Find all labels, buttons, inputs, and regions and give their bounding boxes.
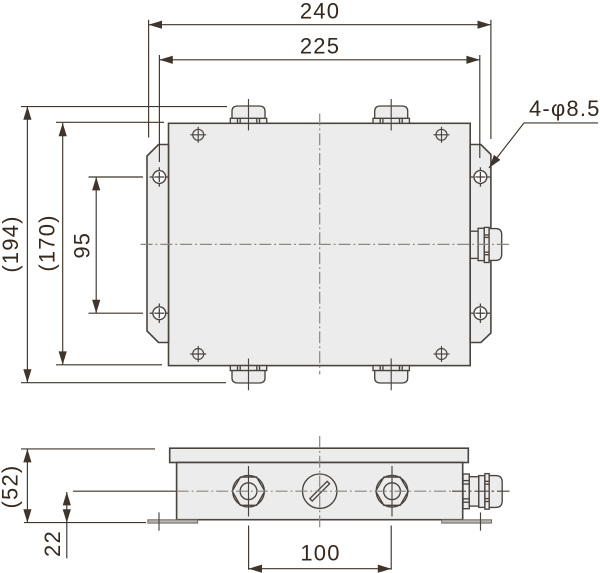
centerline extension left [73, 490, 177, 492]
left mounting flange [147, 145, 169, 343]
bottom cable gland left [230, 366, 266, 383]
top cable gland left [230, 106, 266, 123]
top gland left crosshair [248, 99, 250, 131]
side gland ring C [485, 474, 489, 510]
dimension (170) [35, 122, 164, 364]
dimension (194) [0, 106, 227, 382]
left foot crosshair [158, 512, 160, 530]
side view horizontal centerline [177, 490, 455, 492]
hex fitting right [376, 475, 409, 507]
lid side view [170, 448, 469, 462]
dimension 95 [69, 177, 143, 313]
side gland barrel [469, 477, 479, 506]
svg-text:(194): (194) [0, 215, 23, 272]
svg-text:225: 225 [300, 33, 340, 58]
vertical centerline top view [319, 114, 321, 375]
dimension 225 [159, 33, 479, 162]
side gland cap [489, 476, 502, 508]
svg-text:100: 100 [300, 541, 340, 566]
svg-text:95: 95 [69, 232, 94, 259]
dimension 22 [40, 492, 71, 558]
leader 4-phi8.5 [489, 96, 600, 168]
svg-text:(170): (170) [35, 214, 60, 271]
side gland nut [463, 474, 502, 510]
right side connector nut [478, 228, 484, 260]
corner screw bottom-left [190, 346, 206, 362]
top cable gland right [373, 106, 409, 123]
flange hole bottom-right [471, 304, 490, 323]
right side connector cap [489, 229, 502, 261]
flange hole top-right [471, 167, 490, 186]
side gland crosshair [452, 490, 510, 492]
hex fitting right crosshair [391, 466, 393, 517]
left foot [148, 520, 198, 523]
slotted fitting [303, 474, 337, 508]
top gland right crosshair [390, 99, 392, 131]
corner screw top-left [190, 127, 206, 143]
svg-text:4-φ8.5: 4-φ8.5 [529, 96, 600, 121]
flange hole top-left [150, 167, 169, 186]
right foot [442, 520, 492, 523]
hex fitting left crosshair [248, 466, 250, 517]
dimension (52) [0, 449, 155, 523]
horizontal centerline top view [141, 243, 510, 245]
hex fitting left [232, 475, 265, 507]
body side view [177, 463, 463, 520]
corner screw bottom-right [434, 346, 450, 362]
svg-text:240: 240 [300, 0, 340, 23]
box body top view [169, 123, 471, 365]
corner screw top-right [434, 127, 450, 143]
right side connector stub [470, 227, 502, 262]
side gland ring B [479, 476, 485, 508]
right mounting flange [470, 145, 491, 343]
right side connector ring [484, 227, 489, 262]
svg-text:(52): (52) [0, 465, 23, 509]
flange hole bottom-left [150, 304, 169, 323]
bottom gland left crosshair [248, 359, 250, 391]
dimension 100 [249, 526, 392, 573]
svg-text:22: 22 [40, 530, 65, 557]
right foot crosshair [480, 512, 482, 530]
bottom cable gland right [373, 366, 409, 383]
slotted fitting centerline [319, 436, 321, 529]
bottom gland right crosshair [390, 359, 392, 391]
dimension 240 [149, 0, 491, 139]
